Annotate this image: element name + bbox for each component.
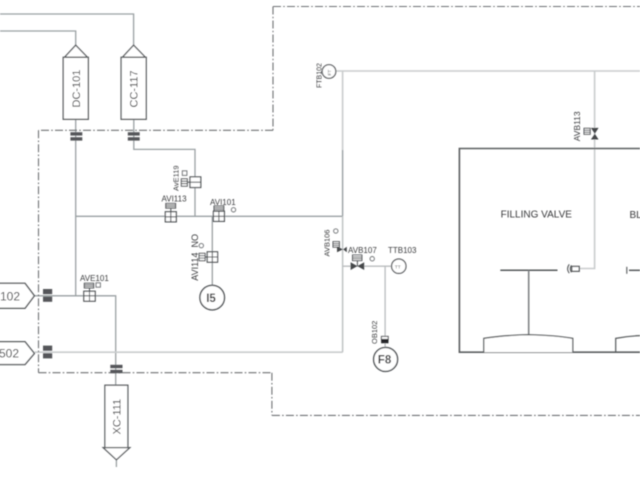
svg-text:AVB113: AVB113 [572, 111, 582, 141]
instrument I5 [200, 285, 225, 310]
dash-dot boundary y=415.4 [272, 414, 640, 416]
svg-text:AVI101: AVI101 [210, 198, 236, 207]
wire 502 light line [34, 351, 342, 353]
blowing valve seat bar [627, 267, 640, 274]
svg-text:DC-101: DC-101 [71, 70, 83, 108]
svg-text:AVB106: AVB106 [323, 230, 332, 257]
dash-dot boundary y=130 [39, 129, 274, 131]
svg-text:AVI113: AVI113 [162, 195, 188, 204]
spray nozzle [568, 264, 580, 273]
vessel DC-101 [63, 45, 88, 119]
instrument F8 [374, 347, 398, 371]
filling valve seat bar [500, 269, 557, 271]
svg-text:TTB103: TTB103 [388, 246, 417, 255]
instrument FTB102 [317, 63, 336, 88]
svg-text:FILLING VALVE: FILLING VALVE [501, 210, 573, 221]
filling valve box [459, 149, 640, 353]
wire nozzle drop line x=594.6 [580, 71, 595, 269]
svg-text:CC-117: CC-117 [129, 70, 141, 107]
svg-text:OB102: OB102 [370, 321, 379, 344]
wire drop to OB102 / F8 [384, 266, 386, 347]
filling valve stem [528, 270, 530, 334]
wire XC-111 feed segment [115, 343, 117, 385]
tag 502 [0, 342, 34, 365]
svg-text:I5: I5 [206, 293, 216, 305]
wire TTB103 branch [343, 265, 392, 267]
svg-text:BL: BL [630, 210, 640, 221]
instrument TTB103 [388, 246, 417, 273]
wire XC-111 bottom stub [115, 460, 117, 467]
filling valve pedestal [484, 335, 573, 353]
vessel CC-117 [121, 45, 146, 119]
valve AVB113 [572, 111, 599, 141]
wire FTB102 horizontal line y=71 [336, 70, 640, 72]
wire top feed to DC-101 [0, 31, 76, 46]
svg-text:102: 102 [0, 289, 20, 303]
dash-dot boundary top right [273, 6, 640, 8]
svg-text:AVB107: AVB107 [348, 246, 377, 255]
svg-text:FT: FT [327, 70, 333, 76]
valve AVI114 NO [190, 234, 218, 281]
svg-text:AvE119: AvE119 [172, 165, 181, 191]
wire top feed to CC-117 [0, 14, 134, 46]
svg-text:XC-111: XC-111 [112, 399, 124, 435]
dash-dot boundary left vertical of top block [272, 7, 274, 131]
wire 102 line through AVE101 down to XC-111 [34, 296, 115, 343]
flange pair under DC-101 [70, 132, 82, 140]
dash-dot boundary y=372.7 [39, 372, 272, 374]
dash-dot boundary x=38.5 [38, 130, 40, 372]
flange pair on 502 line [43, 346, 52, 359]
wire branch down to I5 [211, 216, 213, 285]
valve AVI113 [162, 195, 188, 222]
wire CC-117 downpipe and run to AVE119 [134, 119, 195, 216]
svg-text:TT: TT [395, 265, 401, 271]
orifice OB102 [370, 321, 388, 344]
blowing valve pedestal [616, 336, 640, 353]
flange pair under CC-117 [128, 132, 140, 140]
wire main process line y=216 [76, 215, 343, 217]
valve AVB107 [348, 246, 377, 270]
wire DC-101 downpipe [75, 119, 77, 295]
wire FTB102 vertical riser x=343 upper [342, 71, 344, 150]
valve AVE119 [172, 165, 201, 191]
valve AVE101 [80, 274, 109, 301]
valve AVB106 [323, 229, 347, 257]
svg-text:AVI114 NO: AVI114 NO [190, 234, 200, 281]
svg-text:FTB102: FTB102 [317, 63, 324, 88]
valve AVI101 [210, 198, 236, 222]
wire riser x=343 lower [342, 216, 344, 352]
tag 102 [0, 283, 34, 308]
svg-text:F8: F8 [378, 355, 392, 367]
svg-text:502: 502 [0, 347, 19, 361]
dash-dot boundary step x=272 [271, 373, 273, 416]
flange pair on XC-111 feed [110, 365, 122, 373]
wire riser x=343 middle (process) [342, 150, 344, 216]
flange pair on 102 line [43, 289, 52, 302]
vessel XC-111 [103, 385, 130, 460]
svg-text:AVE101: AVE101 [80, 274, 109, 283]
